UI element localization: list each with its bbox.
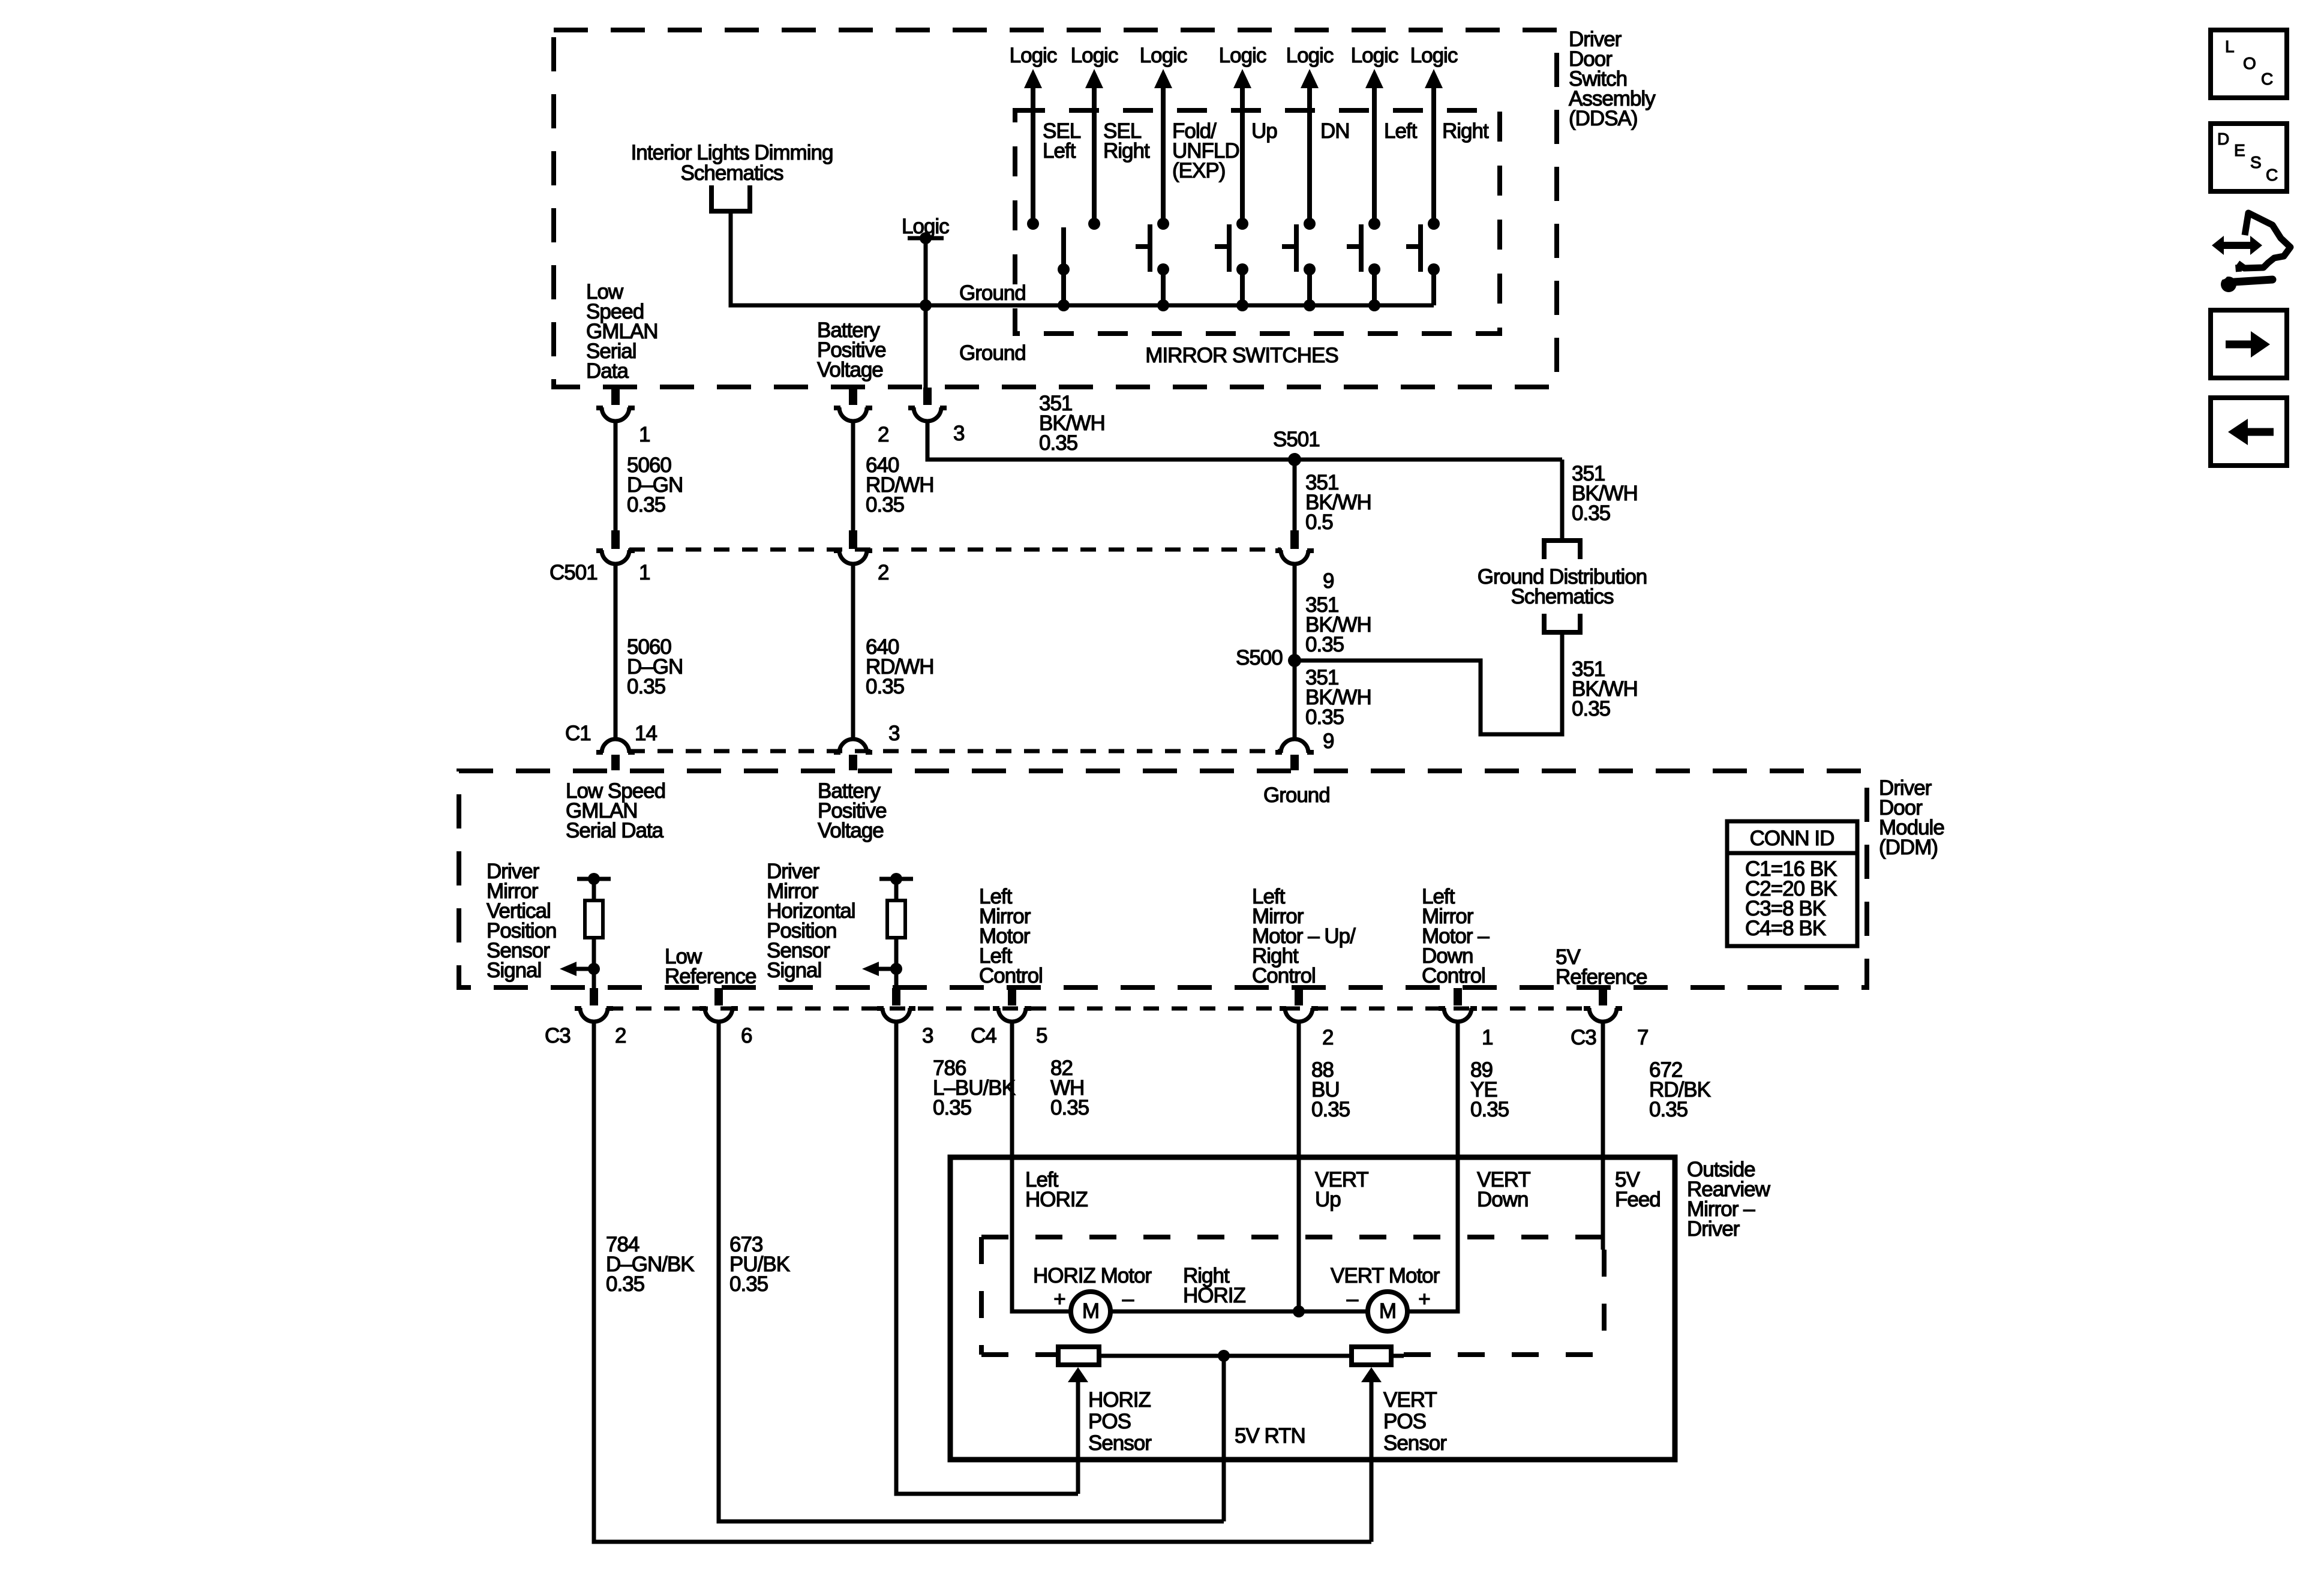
DESC icon box (2211, 124, 2287, 191)
switch SEL blade (1058, 227, 1070, 305)
svg-text:HORIZ: HORIZ (1025, 1188, 1088, 1211)
svg-text:Driver: Driver (1687, 1217, 1740, 1241)
svg-text:–: – (1347, 1287, 1359, 1311)
wire 784 D-GN/BK (594, 1023, 1371, 1542)
svg-text:0.35: 0.35 (606, 1272, 644, 1296)
svg-text:Signal: Signal (487, 959, 541, 982)
svg-text:POS: POS (1088, 1410, 1131, 1433)
svg-text:2: 2 (878, 561, 888, 584)
Low Speed GMLAN Serial Data label (DDM) (566, 779, 665, 842)
svg-text:Control: Control (1252, 964, 1316, 987)
Logic terminal bar (908, 232, 944, 244)
wire 351 BK/WH from pin 3 (927, 421, 1562, 460)
Low Speed GMLAN Serial Data label (586, 280, 657, 383)
label 89 YE 0.35 (1470, 1058, 1509, 1121)
svg-text:(DDM): (DDM) (1879, 836, 1938, 859)
svg-text:Data: Data (586, 359, 629, 383)
svg-text:0.35: 0.35 (627, 675, 665, 698)
horizontal position sensor (resistor) (879, 873, 913, 989)
DDSA connector pin 1 (596, 388, 650, 446)
HORIZ POS sensor element (1058, 1347, 1099, 1365)
svg-text:Left: Left (1384, 119, 1418, 143)
VERT POS right stub (1391, 1354, 1404, 1358)
svg-text:POS: POS (1383, 1410, 1426, 1433)
MIRROR SWITCHES dashed box (1015, 110, 1500, 334)
svg-text:C4=8 BK: C4=8 BK (1745, 917, 1826, 940)
Left Mirror Motor Down Control label (1422, 885, 1490, 987)
label 88 BU 0.35 (1311, 1058, 1350, 1121)
svg-text:14: 14 (635, 722, 657, 745)
wire S501 down to C501 (1293, 460, 1297, 530)
Driver Door Module (DDM) dashed box (459, 771, 1867, 987)
DDM connector pin 7 at x=2672 (1584, 988, 1648, 1049)
5V RTN wire between sensors (1099, 1350, 1352, 1362)
vertical position sensor (resistor) (577, 873, 611, 989)
label 351 BK/WH 0.35 right upper (1572, 462, 1638, 525)
ground distribution top bracket (1544, 541, 1580, 559)
svg-text:9: 9 (1323, 569, 1334, 593)
svg-text:Logic: Logic (1219, 44, 1266, 67)
svg-text:VERT: VERT (1383, 1388, 1437, 1412)
svg-text:Logic: Logic (1410, 44, 1458, 67)
HORIZ POS Sensor label (1088, 1388, 1152, 1455)
Left Mirror Motor Up/Right Control label (1252, 885, 1356, 987)
DDM connector pin 2 at x=2165 (1280, 988, 1333, 1049)
C501 pin 9 (1275, 530, 1334, 593)
svg-text:2: 2 (1322, 1026, 1333, 1049)
label 351 BK/WH 0.35 below S500 (1305, 666, 1371, 729)
C3 label right (1571, 1026, 1596, 1049)
svg-text:3: 3 (922, 1024, 933, 1047)
svg-text:S: S (2250, 153, 2261, 172)
5V RTN wire down (1222, 1356, 1226, 1521)
Driver Mirror Horizontal Position Sensor Signal label (767, 860, 855, 982)
svg-text:Logic: Logic (1071, 44, 1118, 67)
label 351 BK/WH 0.5 (1305, 471, 1371, 534)
svg-text:Logic: Logic (1140, 44, 1187, 67)
svg-text:0.35: 0.35 (1305, 706, 1344, 729)
Low Reference label (665, 945, 756, 988)
label SEL Left (1043, 119, 1081, 163)
Ground label upper (959, 281, 1026, 305)
svg-text:9: 9 (1323, 730, 1334, 753)
motor common wire (1109, 1305, 1369, 1317)
switch Up actuator and lower contact (1215, 224, 1248, 305)
svg-text:1: 1 (1482, 1026, 1493, 1049)
C1 pin 9 (1275, 739, 1314, 770)
MIRROR SWITCHES label (1145, 344, 1338, 367)
svg-text:E: E (2234, 141, 2245, 160)
label Right (1442, 119, 1489, 143)
svg-text:Down: Down (1477, 1188, 1528, 1211)
svg-text:Ground: Ground (959, 281, 1026, 305)
connector C501 dotted line (629, 548, 1281, 552)
ground bus wire (731, 304, 1434, 308)
svg-text:(DDSA): (DDSA) (1569, 107, 1638, 130)
svg-text:Right: Right (1103, 139, 1150, 163)
wire 5060 D-GN upper (614, 421, 618, 530)
switch Right logic arrow (1410, 44, 1458, 230)
svg-text:HORIZ: HORIZ (1088, 1388, 1151, 1412)
DDM connector pin 6 at x=1198 (699, 988, 752, 1047)
svg-text:Voltage: Voltage (818, 819, 884, 842)
svg-text:Control: Control (979, 964, 1043, 987)
Battery Positive Voltage label (817, 319, 886, 382)
svg-text:Sensor: Sensor (1383, 1431, 1447, 1455)
Driver Mirror Vertical Position Sensor Signal label (487, 860, 557, 982)
svg-text:DN: DN (1320, 119, 1350, 143)
wire ground distribution to S500 zigzag (1295, 632, 1562, 734)
HORIZ POS sensor arrow (1068, 1367, 1088, 1494)
svg-text:Ground: Ground (1263, 784, 1330, 807)
svg-text:C: C (2266, 166, 2278, 184)
C1 pin 3 (834, 722, 899, 770)
svg-text:C: C (2261, 70, 2273, 88)
svg-text:C3: C3 (545, 1024, 571, 1047)
Ground Distribution Schematics label (1478, 565, 1647, 608)
switch Left logic arrow (1351, 44, 1398, 230)
Outside Rearview Mirror box (950, 1157, 1675, 1460)
5V Reference label (1556, 945, 1647, 989)
label SEL Right (1103, 119, 1150, 163)
svg-text:Reference: Reference (665, 965, 756, 988)
svg-text:Up: Up (1315, 1188, 1341, 1211)
wire 351 BK/WH C501 to S500 (1293, 564, 1297, 661)
switch Up logic arrow (1219, 44, 1266, 230)
svg-text:0.35: 0.35 (1572, 502, 1610, 525)
svg-text:Sensor: Sensor (1088, 1431, 1152, 1455)
svg-text:S501: S501 (1273, 428, 1320, 451)
svg-text:2: 2 (878, 423, 888, 446)
ground bus junction dots (920, 299, 1380, 311)
DDSA connector pin 3 (908, 388, 964, 445)
label 640 RD/WH 0.35 lower (866, 635, 934, 698)
Right HORIZ label (1183, 1264, 1246, 1307)
svg-text:Control: Control (1422, 964, 1485, 987)
svg-text:0.35: 0.35 (933, 1096, 971, 1119)
svg-text:Signal: Signal (767, 959, 821, 982)
svg-text:+: + (1053, 1287, 1065, 1311)
svg-text:M: M (1379, 1299, 1396, 1323)
DDM connector pin 2 at x=990 (575, 988, 626, 1047)
switch Fold/UNFLD logic arrow (1140, 44, 1187, 230)
label 351 BK/WH 0.35 right lower (1572, 658, 1638, 721)
horizontal sensor signal tap arrow (862, 962, 902, 976)
svg-text:C501: C501 (550, 561, 597, 584)
splice S501 (1273, 428, 1320, 466)
C501 pin 1 (596, 530, 650, 584)
svg-text:MIRROR SWITCHES: MIRROR SWITCHES (1145, 344, 1338, 367)
ground distribution bottom bracket (1544, 614, 1580, 632)
wire 89 YE (1407, 1023, 1458, 1311)
svg-text:0.35: 0.35 (1305, 633, 1344, 656)
vertical sensor signal tap arrow (560, 962, 600, 976)
label Up (1251, 119, 1277, 143)
label 351 BK/WH 0.35 (pin3) (1039, 392, 1105, 455)
label 82 WH 0.35 (1050, 1056, 1089, 1119)
label Left (1384, 119, 1418, 143)
svg-text:0.35: 0.35 (1039, 431, 1077, 455)
switch SEL Right logic arrow (1071, 44, 1118, 230)
svg-text:7: 7 (1637, 1026, 1648, 1049)
label 5060 D-GN 0.35 lower (627, 635, 683, 698)
label 673 PU/BK 0.35 (729, 1233, 790, 1296)
C1 pin 14 (596, 739, 635, 770)
VERT POS Sensor label (1383, 1388, 1447, 1455)
switch Fold/UNFLD actuator and lower contact (1136, 224, 1169, 305)
connector C3/C4 dotted line (608, 1007, 1589, 1011)
VERT Up label (1315, 1168, 1368, 1211)
Logic label (DDSA ground logic) (902, 215, 949, 238)
wire 672 RD/BK (1601, 1023, 1605, 1250)
Interior Lights Dimming Schematics label (631, 141, 833, 185)
svg-text:6: 6 (741, 1024, 752, 1047)
svg-text:S500: S500 (1236, 646, 1283, 670)
svg-text:0.35: 0.35 (1311, 1098, 1350, 1121)
svg-text:0.35: 0.35 (1470, 1098, 1509, 1121)
svg-text:(EXP): (EXP) (1172, 159, 1225, 182)
svg-text:Feed: Feed (1615, 1188, 1661, 1211)
svg-text:L: L (2225, 37, 2234, 56)
svg-text:0.35: 0.35 (729, 1272, 768, 1296)
svg-text:Ground: Ground (959, 341, 1026, 365)
wire 786 L-BU/BK (896, 1023, 1078, 1494)
switch SEL Left logic arrow (1010, 44, 1057, 230)
label 351 BK/WH 0.35 above S500 (1305, 593, 1371, 656)
svg-text:Logic: Logic (1010, 44, 1057, 67)
left arrow icon box (2211, 398, 2287, 466)
5V RTN label (1235, 1424, 1305, 1448)
label 5060 D-GN 0.35 upper (627, 454, 683, 517)
wire S500 down to C1 (1293, 661, 1297, 740)
wire to ground distribution top (1560, 460, 1565, 540)
CONN ID table (1727, 821, 1857, 946)
svg-text:D: D (2217, 130, 2229, 148)
right arrow icon box (2211, 310, 2287, 378)
svg-text:C1: C1 (565, 722, 591, 745)
svg-text:0.35: 0.35 (866, 493, 904, 517)
Left HORIZ label (1025, 1168, 1088, 1211)
Left Mirror Motor Left Control label (979, 885, 1043, 987)
switch DN logic arrow (1286, 44, 1334, 230)
VERT Motor label (1331, 1264, 1440, 1287)
svg-text:0.35: 0.35 (1572, 697, 1610, 721)
svg-text:–: – (1122, 1287, 1134, 1311)
svg-text:0.35: 0.35 (1050, 1096, 1089, 1119)
svg-text:VERT Motor: VERT Motor (1331, 1264, 1440, 1287)
DDM connector pin 3 at x=1494 (877, 988, 933, 1047)
svg-text:1: 1 (639, 423, 650, 446)
C4 label (971, 1024, 996, 1047)
DDM connector pin 1 at x=2430 (1439, 988, 1493, 1049)
connector C1 dotted line (629, 749, 1281, 754)
svg-text:5: 5 (1036, 1024, 1047, 1047)
Ground label (DDM) (1263, 784, 1330, 807)
svg-text:M: M (1082, 1299, 1099, 1323)
Driver Door Switch Assembly (DDSA) dashed box (554, 30, 1557, 387)
svg-text:5V RTN: 5V RTN (1235, 1424, 1305, 1448)
svg-text:CONN ID: CONN ID (1750, 827, 1834, 850)
svg-text:2: 2 (615, 1024, 626, 1047)
C501 label (550, 561, 597, 584)
label 786 L-BU/BK 0.35 (933, 1056, 1016, 1119)
svg-text:Logic: Logic (1351, 44, 1398, 67)
wire 673 PU/BK (719, 1023, 1224, 1521)
5V Feed label (1615, 1168, 1661, 1211)
svg-text:Left: Left (1043, 139, 1076, 163)
switch Right actuator and lower contact (1406, 224, 1440, 305)
VERT POS sensor arrow (1361, 1367, 1382, 1542)
svg-text:Serial Data: Serial Data (566, 819, 664, 842)
DDSA label (1569, 28, 1656, 130)
HORIZ Motor label (1033, 1264, 1152, 1287)
svg-text:Logic: Logic (1286, 44, 1334, 67)
VERT POS sensor element (1352, 1347, 1391, 1365)
svg-text:Schematics: Schematics (1511, 585, 1614, 608)
svg-text:C4: C4 (971, 1024, 996, 1047)
Battery Positive Voltage label (DDM) (818, 779, 887, 842)
svg-text:0.35: 0.35 (866, 675, 904, 698)
svg-text:+: + (1418, 1287, 1430, 1311)
wire 5060 D-GN lower (614, 564, 618, 740)
vehicle diagnostic icon (2212, 213, 2290, 292)
VERT Down label (1477, 1168, 1530, 1211)
C501 pin 2 (834, 530, 888, 584)
LOC icon box (2211, 30, 2287, 98)
wire 82 WH (1012, 1023, 1071, 1311)
svg-text:3: 3 (888, 722, 899, 745)
pin 9 label at C1 (1323, 730, 1334, 753)
splice S500 (1236, 646, 1301, 670)
wire from dimming bracket to ground bus (731, 211, 926, 305)
Outside Rearview Mirror label (1687, 1158, 1771, 1241)
svg-text:HORIZ: HORIZ (1183, 1284, 1246, 1307)
svg-text:HORIZ Motor: HORIZ Motor (1033, 1264, 1152, 1287)
mirror assembly dashed box (981, 1237, 1604, 1355)
svg-text:C3: C3 (1571, 1026, 1596, 1049)
label 672 RD/BK 0.35 (1649, 1058, 1711, 1121)
C3 label left (545, 1024, 571, 1047)
switch Left actuator and lower contact (1347, 224, 1380, 305)
VERT motor M2 (1347, 1287, 1430, 1331)
DDM label (1879, 776, 1944, 859)
wire 88 BU (1297, 1023, 1301, 1311)
svg-text:0.5: 0.5 (1305, 511, 1333, 534)
switch DN actuator and lower contact (1282, 224, 1316, 305)
label 784 D-GN/BK 0.35 (606, 1233, 694, 1296)
wire 640 RD/WH lower (851, 564, 855, 740)
label Fold/UNFLD (EXP) (1172, 119, 1239, 182)
svg-text:Schematics: Schematics (681, 161, 783, 185)
svg-text:3: 3 (953, 422, 964, 445)
svg-text:Reference: Reference (1556, 965, 1647, 989)
off-page bracket (interior lights dimming) (711, 185, 750, 211)
svg-text:Right: Right (1442, 119, 1489, 143)
C1 label (565, 722, 657, 745)
DDM connector pin 5 at x=1687 (993, 988, 1047, 1047)
svg-text:0.35: 0.35 (627, 493, 665, 517)
DDSA connector pin 2 (834, 388, 888, 446)
Ground label lower (959, 341, 1026, 365)
svg-text:O: O (2243, 54, 2256, 73)
wire 640 RD/WH upper (851, 421, 855, 530)
svg-text:1: 1 (639, 561, 650, 584)
HORIZ motor M1 (1053, 1287, 1134, 1331)
label 640 RD/WH 0.35 upper (866, 454, 934, 517)
svg-text:0.35: 0.35 (1649, 1098, 1688, 1121)
label DN (1320, 119, 1350, 143)
wire Logic terminal to pin 3 (924, 238, 928, 388)
svg-text:Up: Up (1251, 119, 1277, 143)
svg-text:Voltage: Voltage (817, 358, 883, 382)
